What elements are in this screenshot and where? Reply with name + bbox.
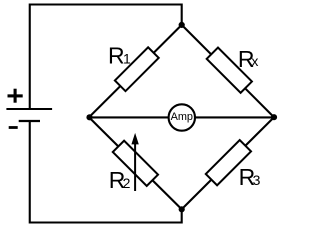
wire: bridge edge top node to right node (through Rx) <box>182 25 274 117</box>
node: top junction <box>179 22 185 28</box>
wire: bridge edge right node to bottom node (through R3) <box>182 117 274 209</box>
wire: battery negative down to bottom-left corner to bottom node <box>30 121 182 223</box>
resistor R1 <box>115 47 159 91</box>
wire: bridge edge left node to bottom node (through R2) <box>89 117 182 209</box>
wire: galvanometer branch left node to right node <box>89 116 274 118</box>
battery V1 positive plate <box>6 108 52 110</box>
label + (battery positive) <box>8 89 23 103</box>
resistor Rx <box>207 48 252 93</box>
node: left junction <box>86 114 92 120</box>
node: bottom junction <box>179 206 185 212</box>
resistor R3 <box>206 140 251 185</box>
wire: battery positive to top-left corner to top node <box>30 5 182 109</box>
svg-text:Amp: Amp <box>171 111 193 123</box>
label - (battery negative) <box>9 126 18 129</box>
arrow of variable resistor R2 <box>131 133 138 191</box>
node: right junction <box>271 114 277 120</box>
galvanometer Amp <box>169 104 195 130</box>
battery V1 negative plate <box>19 120 40 122</box>
wire: bridge edge top node to left node (through R1) <box>89 25 182 117</box>
resistor R2 (variable) <box>113 141 158 186</box>
